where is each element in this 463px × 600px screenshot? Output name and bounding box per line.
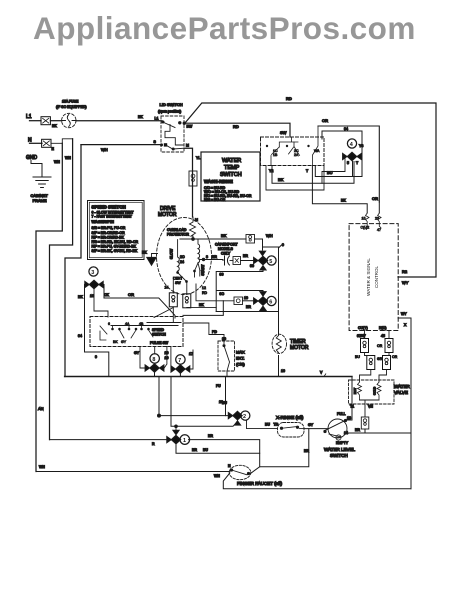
svg-text:WA: WA xyxy=(314,149,320,153)
svg-text:S/F = BR-BK, GY-BU, RD-BK: S/F = BR-BK, GY-BU, RD-BK xyxy=(92,249,138,253)
thermal fuse B1 xyxy=(385,339,393,353)
water temp switch box xyxy=(201,152,260,202)
wire console common loop xyxy=(266,166,324,191)
svg-text:COLD: COLD xyxy=(373,386,377,395)
wire N lead-in xyxy=(30,142,43,144)
console switch box (dashed) xyxy=(261,130,325,166)
svg-text:CU(Y): CU(Y) xyxy=(358,326,368,330)
wire diamond4 right to inner frame xyxy=(361,156,362,158)
svg-text:EXT.: EXT. xyxy=(236,356,244,361)
cam switch 6 diamond xyxy=(258,297,267,305)
svg-text:OR: OR xyxy=(372,196,378,201)
svg-text:WH: WH xyxy=(214,474,220,478)
wire control to fuses xyxy=(365,331,390,339)
svg-text:MOTOR: MOTOR xyxy=(158,212,177,218)
svg-text:GY: GY xyxy=(121,340,127,344)
svg-text:30: 30 xyxy=(250,264,254,268)
svg-text:2C: 2C xyxy=(180,255,185,259)
ground GND xyxy=(26,155,51,203)
wire faucet link to x-rinse riser xyxy=(251,429,310,474)
svg-text:10: 10 xyxy=(165,356,169,360)
svg-text:ONLY: ONLY xyxy=(221,252,231,256)
fuse F1 (15A, dashed circle) xyxy=(56,100,87,128)
svg-text:8: 8 xyxy=(152,357,155,363)
svg-text:16: 16 xyxy=(90,294,94,298)
svg-text:EMPTY: EMPTY xyxy=(336,441,349,445)
svg-text:F/S = BR-RD, BK-BU, RD-OR: F/S = BR-RD, BK-BU, RD-OR xyxy=(92,240,139,244)
arrow into diamond 4 left xyxy=(343,154,347,160)
svg-text:BR: BR xyxy=(355,428,360,432)
wire console T to control xyxy=(312,166,367,214)
wire control right stub to bottom loop xyxy=(398,312,411,489)
wire fuse to lid switch, BK L1 xyxy=(76,115,162,121)
wire BU selector output xyxy=(315,162,362,177)
svg-text:E: E xyxy=(52,147,55,151)
svg-text:R: R xyxy=(152,442,155,446)
svg-text:6: 6 xyxy=(269,299,272,305)
svg-text:VN: VN xyxy=(368,405,373,409)
arrow into diamond 6 left xyxy=(254,298,258,304)
svg-text:CK: CK xyxy=(104,293,110,297)
wire RD start to resistor line xyxy=(196,284,234,301)
svg-text:F/F = BR-PU, GY-BK/RD-BK: F/F = BR-PU, GY-BK/RD-BK xyxy=(92,245,137,249)
cam switch 2 circle xyxy=(241,411,250,420)
svg-text:WATER & SIGNAL: WATER & SIGNAL xyxy=(366,258,371,296)
svg-text:BK: BK xyxy=(341,199,346,203)
cam switch 8 diamond xyxy=(150,364,159,372)
wire bracket cam5 to cam6 xyxy=(216,267,263,312)
wire GY x-rinse to water level xyxy=(304,423,328,429)
svg-text:BK: BK xyxy=(142,251,147,255)
wire resistor to cam 6 xyxy=(243,301,257,309)
svg-text:6: 6 xyxy=(108,322,110,326)
svg-text:S/F = BR-OR/RD-OR: S/F = BR-OR/RD-OR xyxy=(92,231,126,235)
console terminals Y2 / T xyxy=(269,169,309,173)
wire diamond 7 to bus xyxy=(179,373,181,376)
svg-text:BR: BR xyxy=(243,254,248,258)
svg-text:SLOW: SLOW xyxy=(170,248,174,259)
arrow into diamond 6 bottom xyxy=(260,306,266,310)
thermal fuse B2 xyxy=(383,356,391,370)
svg-text:L1: L1 xyxy=(26,114,32,120)
svg-text:START: START xyxy=(201,264,205,276)
wire WH main to lid switch S xyxy=(81,145,161,152)
svg-text:FULL: FULL xyxy=(337,412,346,416)
capacitor C1 xyxy=(225,256,234,265)
svg-text:45: 45 xyxy=(381,334,385,338)
wire valve return BR xyxy=(348,428,411,433)
valve common wire xyxy=(350,400,379,417)
svg-text:OR: OR xyxy=(392,355,398,359)
cam switch 7 circle xyxy=(176,355,185,364)
svg-text:WY: WY xyxy=(401,312,407,316)
arrow into diamond 7 left xyxy=(171,366,175,372)
svg-text:BU: BU xyxy=(355,355,360,359)
svg-text:BK: BK xyxy=(199,303,204,307)
connector on YL wire xyxy=(189,171,197,186)
svg-text:PROTECTOR: PROTECTOR xyxy=(167,233,189,237)
svg-text:TEMP: TEMP xyxy=(224,165,240,171)
svg-text:TR: TR xyxy=(274,423,279,427)
svg-text:BK: BK xyxy=(78,295,83,299)
svg-text:BK: BK xyxy=(221,233,227,238)
svg-text:GND: GND xyxy=(26,155,38,161)
cam switch 4 circle xyxy=(347,139,363,148)
selector 4 outer box xyxy=(318,126,379,202)
wire speed box to max ext xyxy=(183,323,224,344)
wire RD top run to right edge xyxy=(185,96,436,285)
svg-text:Y2: Y2 xyxy=(269,169,273,173)
svg-text:3: 3 xyxy=(91,270,94,276)
speed switch selector box (dashed) xyxy=(90,317,183,347)
cam switch 3 circle xyxy=(89,267,98,276)
svg-text:36: 36 xyxy=(220,273,224,277)
svg-text:CENT: CENT xyxy=(173,277,183,281)
wire timer to bus xyxy=(279,356,285,377)
thermal fuse A2 xyxy=(367,356,375,370)
svg-text:34: 34 xyxy=(78,334,82,338)
speed switch contacts xyxy=(100,322,153,344)
svg-text:WASH-RINSE: WASH-RINSE xyxy=(204,179,233,184)
cam switch 3 diamond xyxy=(89,280,98,288)
wire N vertical to x36 xyxy=(36,143,62,471)
svg-text:WY: WY xyxy=(402,280,409,285)
wire L1 to fuse, BK xyxy=(50,121,61,128)
svg-text:FRAME: FRAME xyxy=(33,198,47,203)
wire diamond3 right OR xyxy=(90,285,175,319)
svg-text:20: 20 xyxy=(165,351,169,355)
wires fuses to valve xyxy=(355,344,398,382)
wire diamond3 left BK down xyxy=(78,285,109,377)
wire long bottom WH to faucet xyxy=(36,465,230,478)
wire cam1 out BR xyxy=(189,434,260,467)
svg-text:WH: WH xyxy=(101,147,108,152)
cap line (export models) xyxy=(199,243,238,261)
svg-text:10: 10 xyxy=(244,296,248,300)
x-rinse switch (dashed) xyxy=(276,415,304,437)
wire cam6 bottom to timer vertical xyxy=(183,301,279,316)
console switch contacts xyxy=(266,126,320,166)
selector 4 inner frame xyxy=(322,118,362,167)
resistor box on cap line xyxy=(233,257,241,265)
svg-text:14: 14 xyxy=(344,431,348,435)
water and signal control box (dashed) xyxy=(349,224,398,331)
svg-text:WH: WH xyxy=(266,233,273,238)
wire WH vertical to bus xyxy=(65,145,81,377)
svg-text:H(U): H(U) xyxy=(379,326,386,330)
svg-text:BU: BU xyxy=(327,170,333,175)
svg-text:OR: OR xyxy=(322,118,328,123)
svg-text:PD: PD xyxy=(212,330,217,334)
svg-text:9: 9 xyxy=(282,243,284,247)
svg-text:N: N xyxy=(28,138,32,144)
wire bus to diamond2 bottom / diamond1 top xyxy=(171,377,238,428)
svg-text:BR: BR xyxy=(246,305,251,309)
svg-text:V: V xyxy=(320,371,323,375)
svg-text:N: N xyxy=(228,464,231,468)
svg-text:1: 1 xyxy=(183,438,186,444)
svg-text:5: 5 xyxy=(347,161,349,165)
wire max ext to bus xyxy=(226,371,228,377)
speed switch common bars xyxy=(111,323,181,326)
cam switch 8 circle xyxy=(150,354,159,363)
cam switch 6 circle xyxy=(267,296,276,305)
arrow into diamond 3 right xyxy=(99,282,103,288)
arrow into diamond 4 right xyxy=(357,154,361,160)
svg-text:BU: BU xyxy=(222,401,227,405)
svg-text:SW: SW xyxy=(175,281,181,285)
svg-text:SW: SW xyxy=(280,130,287,135)
svg-text:SWITCH: SWITCH xyxy=(330,453,348,458)
svg-text:OR: OR xyxy=(128,292,134,297)
svg-text:SWITCH: SWITCH xyxy=(220,172,242,178)
svg-text:(IF SO EQUIPPED): (IF SO EQUIPPED) xyxy=(56,105,87,109)
svg-text:BW: BW xyxy=(187,125,193,129)
svg-text:GR: GR xyxy=(377,357,383,361)
svg-text:WATER: WATER xyxy=(222,158,241,164)
svg-text:GY: GY xyxy=(134,351,140,355)
svg-text:SPEED SWITCH: SPEED SWITCH xyxy=(92,205,126,210)
svg-text:RD: RD xyxy=(233,124,239,129)
svg-text:X-RINSE (off): X-RINSE (off) xyxy=(276,415,304,420)
svg-text:3C: 3C xyxy=(220,292,225,296)
wire cam2 to x-rinse xyxy=(247,420,279,429)
svg-text:16: 16 xyxy=(281,369,285,373)
connector below valve xyxy=(361,417,369,429)
terminal connector N xyxy=(42,139,51,147)
svg-text:1B: 1B xyxy=(273,153,278,157)
cam switch 7 diamond xyxy=(176,365,185,373)
svg-text:BR: BR xyxy=(192,448,197,452)
svg-text:WH: WH xyxy=(54,160,60,164)
cam switch 1 diamond xyxy=(171,435,180,443)
svg-text:R2: R2 xyxy=(402,269,408,274)
svg-text:FINGER FAUCET (off): FINGER FAUCET (off) xyxy=(237,481,283,486)
cam switch 4 diamond xyxy=(347,152,356,160)
svg-text:BU: BU xyxy=(265,423,270,427)
wire diamond4 left feed xyxy=(322,158,345,183)
thermal protector motor B xyxy=(183,294,191,308)
svg-text:RD: RD xyxy=(286,96,292,101)
wire OR selector right edge down xyxy=(372,196,379,213)
svg-text:L1: L1 xyxy=(155,117,159,121)
svg-text:9: 9 xyxy=(95,355,97,359)
cam switch 5 circle xyxy=(267,256,276,265)
svg-text:23: 23 xyxy=(375,217,379,221)
svg-text:94: 94 xyxy=(344,127,348,131)
svg-text:4A: 4A xyxy=(125,322,130,326)
terminal connector L1 xyxy=(41,117,50,125)
arrow into diamond 5 bottom xyxy=(260,266,266,270)
svg-text:4B: 4B xyxy=(139,322,144,326)
svg-text:FU: FU xyxy=(216,384,221,388)
wire diamond 8 to bus xyxy=(154,372,156,376)
arrow into diamond 1 left xyxy=(167,437,171,443)
svg-text:LID SWITCH: LID SWITCH xyxy=(160,102,183,107)
svg-text:HOT: HOT xyxy=(353,388,357,395)
svg-text:WH: WH xyxy=(39,465,45,469)
svg-text:MODELS: MODELS xyxy=(218,247,233,251)
svg-text:7: 7 xyxy=(178,358,181,364)
svg-text:2: 2 xyxy=(243,414,246,420)
arrow into diamond 3 left xyxy=(85,282,89,288)
svg-text:BK: BK xyxy=(113,340,118,344)
wire WH to cam 5 xyxy=(255,233,273,250)
svg-text:BK: BK xyxy=(52,124,57,128)
svg-text:GY: GY xyxy=(308,423,314,427)
svg-text:T: T xyxy=(356,161,359,165)
slow winding xyxy=(170,240,185,272)
svg-text:8: 8 xyxy=(206,255,208,259)
svg-text:WH: WH xyxy=(65,156,71,160)
wire to timer vertical xyxy=(263,243,285,335)
wire faucet to bottom loop xyxy=(223,473,411,489)
svg-text:X: X xyxy=(404,323,407,327)
svg-text:OVERLOAD: OVERLOAD xyxy=(167,228,187,232)
svg-text:WATER LEVEL: WATER LEVEL xyxy=(324,447,356,452)
arrow into diamond 2 bottom xyxy=(235,421,241,425)
svg-text:2A: 2A xyxy=(294,153,299,157)
wire bus to water level full xyxy=(337,377,352,421)
svg-text:Y3: Y3 xyxy=(359,144,363,148)
wire N stub up xyxy=(51,139,73,144)
svg-text:BR: BR xyxy=(208,434,213,438)
svg-text:PULSE SW: PULSE SW xyxy=(150,341,169,345)
resistor box on cam6 line xyxy=(234,296,248,305)
arrow into diamond 8 right xyxy=(160,365,164,371)
timer motor xyxy=(272,334,309,353)
svg-text:S/S = BR-PU, PU-OR: S/S = BR-PU, PU-OR xyxy=(92,226,126,230)
svg-text:SPEED: SPEED xyxy=(152,328,164,332)
wire FU bus down to cam2 line xyxy=(216,377,226,416)
svg-text:AN: AN xyxy=(38,406,44,411)
start winding xyxy=(198,240,205,276)
wire x49.5 to diamond1 R xyxy=(50,440,172,446)
svg-text:5: 5 xyxy=(269,259,272,265)
wire motor chassis arrow BK xyxy=(142,251,158,266)
svg-text:47: 47 xyxy=(377,228,381,232)
node L1 xyxy=(26,114,32,120)
wire YL lid switch M down to motor xyxy=(184,148,200,217)
arrow into diamond 5 left xyxy=(254,258,258,264)
svg-text:15: 15 xyxy=(362,217,366,221)
arrow into diamond 5 top xyxy=(260,251,266,255)
wire bus to diamond2 left xyxy=(158,377,229,418)
arrow into diamond 2 left xyxy=(228,413,232,419)
cam switch 1 circle xyxy=(180,435,190,445)
svg-text:CONTROL: CONTROL xyxy=(374,266,379,288)
svg-text:VALVE: VALVE xyxy=(394,390,408,395)
svg-text:YL: YL xyxy=(196,156,200,160)
lid switch (open position) xyxy=(154,102,193,152)
wire diamond1 top feed xyxy=(175,426,177,430)
svg-text:18: 18 xyxy=(347,416,351,420)
overload protector xyxy=(167,217,198,239)
svg-text:24: 24 xyxy=(165,286,169,290)
valve solenoid cold xyxy=(373,382,382,400)
cent sw contacts xyxy=(165,263,208,295)
svg-text:MOTOR: MOTOR xyxy=(290,345,309,351)
water level switch xyxy=(324,419,356,458)
arrow into diamond 1 top xyxy=(173,430,179,434)
speed switch outputs to cams 7,8 xyxy=(134,347,193,370)
finger faucet switch (dashed) xyxy=(228,464,251,480)
svg-text:SWITCH: SWITCH xyxy=(152,333,166,337)
svg-text:BK: BK xyxy=(138,115,143,119)
svg-text:BR: BR xyxy=(212,255,217,259)
svg-text:BU: BU xyxy=(203,448,208,452)
arrow into diamond 8 left xyxy=(145,365,149,371)
svg-text:(open position): (open position) xyxy=(158,110,181,114)
svg-text:BR: BR xyxy=(304,449,309,453)
control bottom terminals xyxy=(357,326,386,338)
water valve box (dashed) xyxy=(349,380,411,404)
svg-text:MAX: MAX xyxy=(236,350,245,355)
svg-text:T: T xyxy=(306,169,309,173)
thermal fuse A1 xyxy=(361,339,369,353)
svg-text:C(L)2: C(L)2 xyxy=(361,226,370,230)
wire RD to console switches xyxy=(185,123,290,137)
svg-text:F/F = BR-OR/RD-BK: F/F = BR-OR/RD-BK xyxy=(92,236,125,240)
wire cam1 bottom BR BU xyxy=(176,444,260,454)
svg-text:15A FUSE: 15A FUSE xyxy=(62,100,79,104)
speed switch info box xyxy=(88,201,145,260)
svg-text:17: 17 xyxy=(189,352,193,356)
arrow into diamond 6 top xyxy=(260,292,266,296)
wire WH vertical to x49.5 xyxy=(50,139,73,440)
control input squiggles xyxy=(361,213,382,232)
thermal protectors in motor xyxy=(169,293,177,307)
wire start winding to bracket xyxy=(220,273,225,297)
max ext switch (dashed) xyxy=(218,337,245,371)
svg-text:WASH/SPIN: WASH/SPIN xyxy=(92,219,115,224)
svg-text:M: M xyxy=(195,218,198,222)
svg-text:S: S xyxy=(154,140,157,144)
svg-text:(ON): (ON) xyxy=(236,362,245,367)
svg-text:12: 12 xyxy=(202,286,206,290)
svg-text:7 - FAST INTERMITTENT: 7 - FAST INTERMITTENT xyxy=(92,215,133,219)
wire BK motor to cap line xyxy=(180,233,246,240)
wire diamond4 bottom / console Y2 BK xyxy=(272,161,359,183)
node N xyxy=(28,138,32,144)
svg-text:M: M xyxy=(186,144,189,148)
valve solenoid hot xyxy=(353,382,362,400)
wire L1 lead-in xyxy=(30,120,42,122)
svg-text:BK: BK xyxy=(278,177,284,182)
wire main bus xyxy=(65,371,352,377)
wire cap line to cam 5 xyxy=(241,254,257,268)
wires cent sw to thermals xyxy=(154,277,216,323)
svg-text:OR: OR xyxy=(377,344,383,348)
connector GD on BK wire xyxy=(246,235,255,244)
drive motor (dashed ellipse) xyxy=(157,206,212,295)
svg-text:WATER: WATER xyxy=(394,384,410,389)
svg-text:4: 4 xyxy=(350,142,354,148)
svg-text:H/H = BU-OR: H/H = BU-OR xyxy=(204,198,226,202)
svg-text:RD: RD xyxy=(202,291,208,295)
arrow into diamond 7 right xyxy=(186,366,190,372)
cam switch 5 diamond xyxy=(258,256,267,264)
cam switch 2 diamond xyxy=(233,411,242,419)
svg-text:CAP/EXPORT: CAP/EXPORT xyxy=(215,243,238,247)
wire diamond3 bottom to speed switch xyxy=(94,289,108,317)
svg-text:24: 24 xyxy=(180,260,184,264)
